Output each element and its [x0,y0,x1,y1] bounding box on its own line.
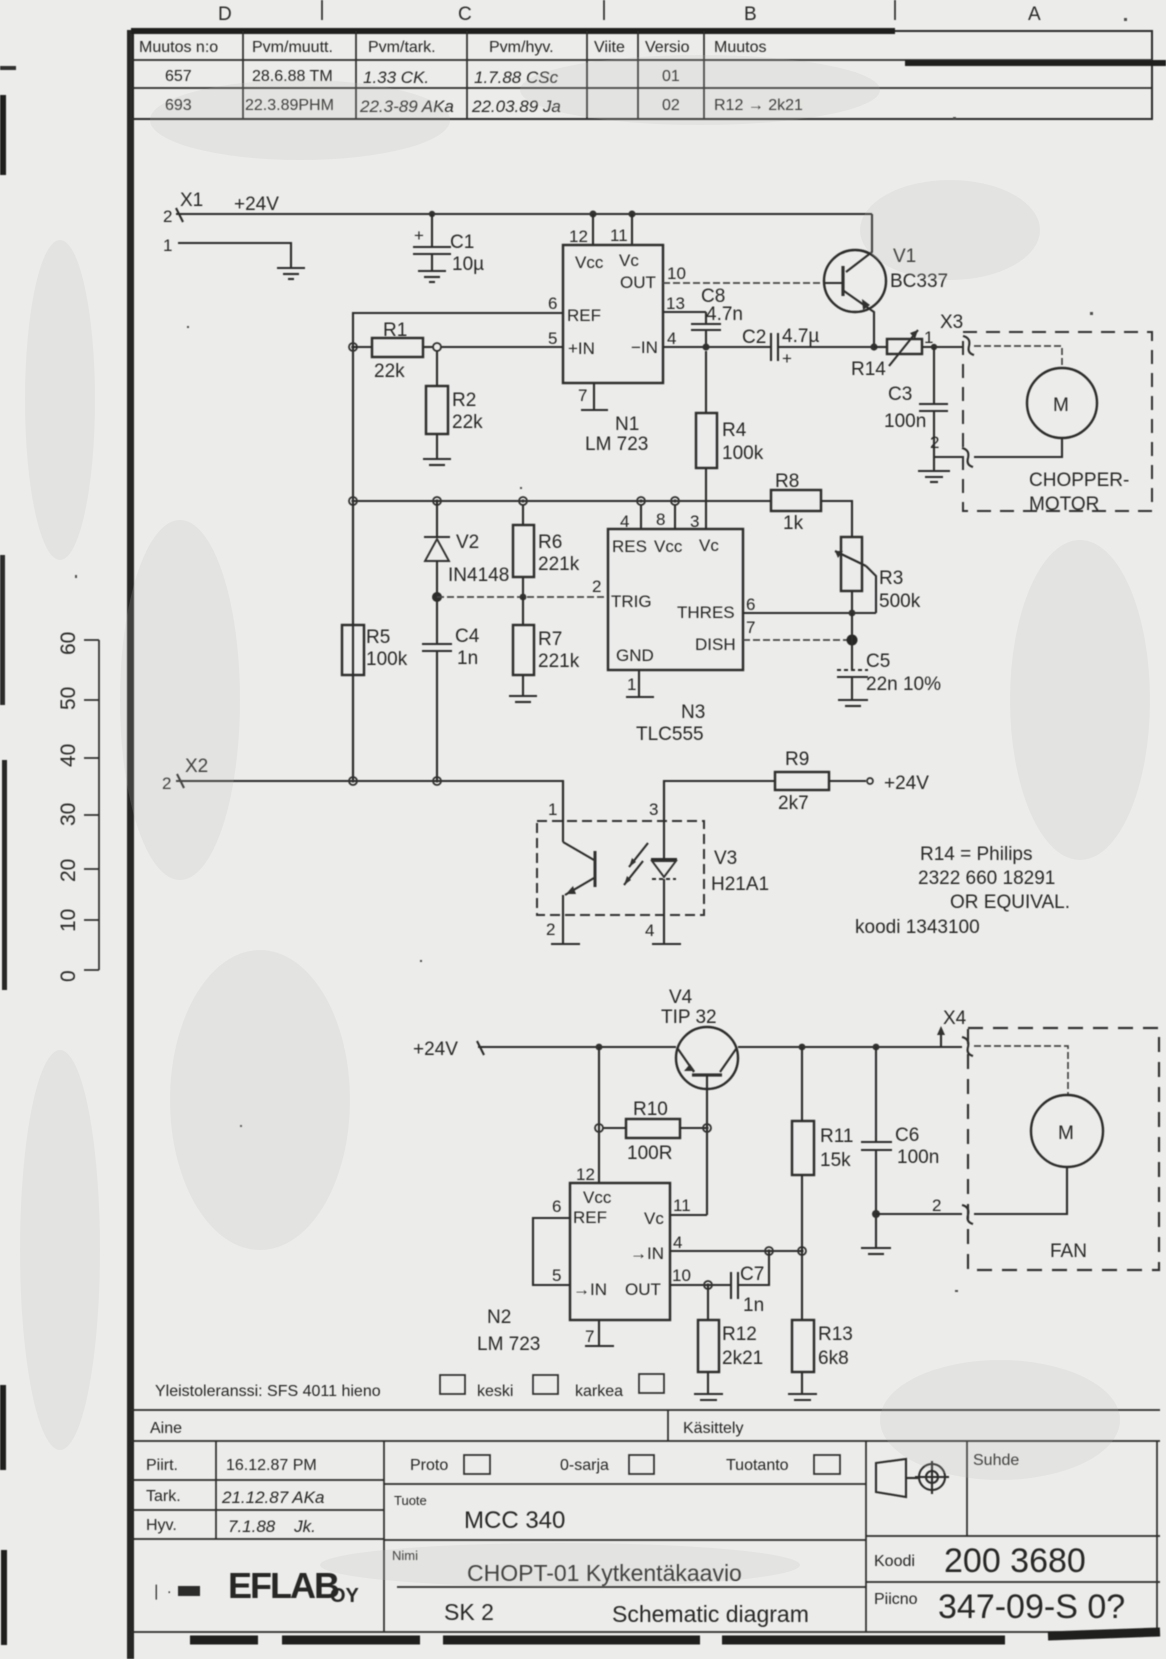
revision table header row [139,39,766,56]
fan dashed enclosure [968,1028,1159,1270]
wire +24V rail top [176,213,872,215]
optocoupler V3 H21A1 box [537,800,769,940]
LED inside V3 [624,781,681,944]
connector X2 [162,756,208,793]
resistor R14 trimmer [851,330,962,380]
wire fan top lead [974,1046,1068,1096]
wire pin11 Vc [670,1214,707,1216]
phototransistor inside V3 [551,781,595,944]
connector X1 [163,190,203,255]
node bus/555 pin4 [637,497,645,505]
resistor R13 [792,1251,853,1393]
connector X3 [924,312,974,355]
revision row 657 [165,68,680,87]
ground R2 [423,459,451,465]
ground C6 [861,1248,891,1254]
ground R13 [788,1394,817,1400]
motor M fan [974,1095,1103,1214]
potentiometer R3 500k [835,537,921,613]
capacitor C8 [691,286,743,347]
resistor R7 [513,594,580,695]
wire motor top lead [974,346,1062,368]
transistor V1 BC337 [824,214,948,347]
resistor R10 [595,1099,711,1164]
chopper motor dashed enclosure [963,332,1152,511]
node rail/R11 [799,1044,806,1051]
zone tick [321,0,323,20]
resistor R6 [513,505,580,597]
bottom border dashes [190,1632,1160,1640]
wire REF pin6 to left bus [353,313,563,781]
wire N1 pin4 line [663,346,771,348]
left margin ruler [57,632,99,982]
timer N3 TLC555 box [592,505,755,745]
ground R7 [509,696,537,702]
capacitor C7 [731,1251,769,1316]
node bus/V2 [433,497,441,505]
wire N1 pin10 OUT to V1 base [663,282,824,284]
ground C1 [418,271,446,282]
resistor R12 [698,1285,763,1393]
resistor R4 [696,351,764,529]
op-amp regulator U N1 LM723 box [548,211,686,456]
projection symbol [876,1459,949,1497]
node X2/R5 [349,777,357,785]
node bus/left vertical [349,497,357,505]
wire +IN pin5 [441,346,563,348]
wire OUT pin10 line [670,1284,731,1286]
connector X4 [876,1008,973,1224]
scan left border bar [127,30,134,1659]
node rail/N2 Vcc [596,1044,603,1051]
zone tick [603,0,605,20]
capacitor C4 [422,597,480,781]
light arrows [629,843,648,867]
resistor R1 [353,320,434,382]
node bus/R6 [519,497,527,505]
title block frame [131,1410,1160,1632]
node C6/X4 pin2 [872,1210,880,1218]
wire TRIG line to 555 [437,596,608,598]
revision row 693 [165,97,803,116]
pin 12 [592,214,594,245]
transistor V4 TIP32 [676,1027,738,1215]
capacitor C5 [837,613,941,699]
diode V2 IN4148 [424,501,509,597]
revision table frame [131,31,1166,119]
ground C5 [838,700,868,706]
node TRIG junction [432,592,442,602]
wire N1 pin13 [663,311,706,313]
node R1 left [349,343,357,351]
resistor R9 [664,749,929,821]
node DISH junction [847,635,858,646]
resistor R2 [426,351,483,458]
node bus/555 pin8 [671,497,679,505]
EFLAB logo [150,1565,360,1607]
note text R14 equivalence [855,844,1070,938]
node R1/R2 junction [433,343,441,351]
wire X2 line [176,781,563,821]
ground R12 [694,1394,723,1400]
zone tick [894,0,896,20]
motor M chopper [974,368,1097,457]
wire X3 pin2 [934,456,962,458]
wire X1 pin1 [178,243,291,267]
resistor R11 [792,1047,853,1251]
pin 7 [593,383,595,409]
wire DISH pin7 [743,639,852,641]
capacitor C3 [884,344,948,470]
regulator N2 LM723 box [477,1165,691,1355]
pin 11 [631,214,633,245]
node emitter/C2 junction [870,343,877,350]
resistor R5 [342,505,408,781]
wire mid bus [353,500,771,502]
wire REF bracket [533,1218,570,1285]
capacitor C1 [413,211,484,275]
capacitor C2 [742,326,874,368]
wire collector rail to X4 [738,1046,962,1048]
ground C3 [918,471,950,482]
resistor R8 [771,471,852,537]
wire THRES pin6 [743,612,876,614]
scan speckles [75,18,1127,1292]
capacitor C6 [861,1047,939,1247]
ground X1 pin1 [277,268,305,279]
node rail/C6 [873,1044,880,1051]
tolerance note row [155,1374,664,1400]
wire N2 pin12 vertical [598,1047,600,1183]
wire pin4 -IN line [670,1250,802,1252]
node X2/C4 [433,777,441,785]
